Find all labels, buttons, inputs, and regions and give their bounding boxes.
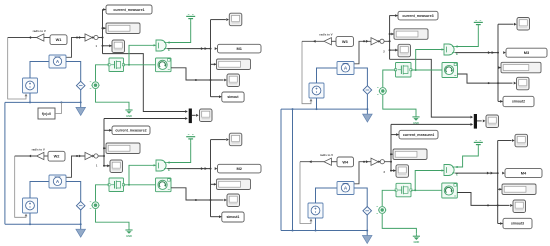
diode DG2 xyxy=(92,202,99,209)
wire to scope 1a xyxy=(102,45,104,47)
svg-text:M4: M4 xyxy=(521,171,527,176)
scope 2a xyxy=(110,160,123,173)
wire to display 3a xyxy=(389,33,391,35)
mosfet T3 xyxy=(396,63,412,78)
wire current sensor signal 1 xyxy=(66,38,103,58)
block W2 xyxy=(48,151,65,161)
wire green mosfet-motor 4 xyxy=(411,189,442,191)
wire solver stub xyxy=(55,102,61,113)
solver f(x)=0 xyxy=(38,108,55,119)
wire green left branch 3 xyxy=(383,70,396,87)
wire current sensor signal 3 xyxy=(354,41,390,64)
wire junction column 3 xyxy=(389,15,391,59)
wire current sensor signal 2 xyxy=(66,156,104,177)
wire green mosfet-motor 3 xyxy=(411,69,442,71)
scope 1b xyxy=(227,74,240,87)
block converter 1 xyxy=(94,35,98,39)
block M3 goto xyxy=(506,48,547,57)
scope 1t xyxy=(229,13,242,26)
ground green 4 xyxy=(415,234,417,236)
scope 3b xyxy=(517,77,530,90)
block M2 goto xyxy=(218,164,262,173)
display 4a xyxy=(393,149,427,160)
dc source E1 xyxy=(186,15,195,17)
block converter 3 xyxy=(380,39,384,43)
wire junction column 2 xyxy=(103,119,105,166)
scope 3a xyxy=(398,44,411,57)
block simout xyxy=(222,92,244,102)
display 2a xyxy=(106,143,140,154)
wire emitter-M1 row xyxy=(167,48,210,50)
wire speed reference row 4 xyxy=(300,161,324,163)
block simout2 xyxy=(503,96,534,106)
wire motor measurement row 3 xyxy=(458,74,513,83)
gain K3b xyxy=(371,38,378,45)
svg-text:simout1: simout1 xyxy=(226,215,239,219)
motor M3 xyxy=(442,63,458,78)
gain K3a xyxy=(324,38,331,45)
svg-text:GND: GND xyxy=(126,114,132,118)
wire to current_measure3 xyxy=(390,15,398,17)
scope 4t xyxy=(515,134,528,147)
diode D2 xyxy=(76,201,85,210)
svg-text:M2: M2 xyxy=(237,166,243,171)
block current_measure1 xyxy=(106,5,152,14)
svg-text:simout: simout xyxy=(227,95,239,99)
wire motor measurement row 4 xyxy=(457,193,509,206)
wire green gate 2 xyxy=(129,165,156,185)
wire to current_measure2 xyxy=(104,129,112,131)
display 3b xyxy=(501,62,541,73)
wire green left branch 1 xyxy=(96,65,110,81)
motor M4 xyxy=(442,183,458,198)
svg-text:current_measure3: current_measure3 xyxy=(402,14,433,18)
current sensor I4 xyxy=(337,182,354,195)
wire to scope 2a xyxy=(103,165,105,167)
wire blue return rail 2 xyxy=(5,223,81,225)
wire blue diode-rail 2 xyxy=(80,210,82,224)
wire blue V1-top xyxy=(30,62,49,79)
wire junction column 4 xyxy=(390,124,392,170)
controlled voltage source V2 xyxy=(23,198,38,213)
wire speed reference row 1 xyxy=(8,37,37,39)
svg-text:M1: M1 xyxy=(237,46,243,51)
wire green left branch 2 xyxy=(96,185,110,201)
diode DG3 xyxy=(379,88,386,95)
wire blue return rail 3 xyxy=(281,108,367,110)
wire to display 4a xyxy=(390,153,392,155)
block current_measure4 xyxy=(399,130,438,139)
svg-text:current_measure4: current_measure4 xyxy=(403,133,434,137)
gain K4b xyxy=(371,158,378,165)
scope mux1 xyxy=(200,109,213,122)
wire sink column 2 xyxy=(210,140,212,217)
scope 1a xyxy=(112,40,125,53)
wire blue diode-rail 3 xyxy=(366,94,368,109)
wire blue return rail 4 xyxy=(281,230,367,232)
block converter 2 xyxy=(94,154,98,158)
mosfet T4 xyxy=(396,183,411,197)
current sensor I1 xyxy=(49,55,66,68)
wire gain-W3 xyxy=(331,40,336,42)
dc source E3 xyxy=(474,21,483,23)
ground blue 2 xyxy=(80,224,82,229)
wire sink column 4 xyxy=(497,141,499,224)
wire emitter-M4 row xyxy=(455,172,498,174)
wire mux1 output xyxy=(192,114,196,116)
wire to mux 2 xyxy=(104,118,186,120)
current sensor I2 xyxy=(49,175,66,188)
svg-text:GND: GND xyxy=(414,240,420,244)
wire current sensor signal 4 xyxy=(354,162,391,184)
wire grey control rail 1 xyxy=(8,38,26,100)
wire to display 1b xyxy=(211,63,217,65)
display 4b xyxy=(502,184,536,195)
wire emitter-M2 row xyxy=(167,168,210,170)
diode D1 xyxy=(76,81,85,90)
wire green mosfet-motor 1 xyxy=(124,64,156,66)
ground blue 1 xyxy=(80,102,82,107)
wire gain-W2 xyxy=(44,155,48,157)
controlled voltage source V4 xyxy=(308,203,323,218)
svg-text:GND: GND xyxy=(126,234,132,238)
motor M2 xyxy=(156,178,172,192)
display 3a xyxy=(394,29,428,40)
wire blue link right pair second xyxy=(292,109,294,230)
wire gain-W1 xyxy=(44,37,50,39)
controlled voltage source V1 xyxy=(23,78,38,93)
diode DG1 xyxy=(92,82,99,89)
ground green 3 xyxy=(415,115,417,117)
mux 2 xyxy=(474,114,477,129)
wire speed reference row 2 xyxy=(15,155,37,157)
wire blue V2-bottom xyxy=(29,213,31,224)
wire to mux 1 xyxy=(103,54,186,112)
wire blue link left pair xyxy=(4,102,6,224)
transistor Q2 xyxy=(156,160,166,171)
wire sink column 3 xyxy=(497,24,499,101)
display 1b xyxy=(217,59,251,70)
wire blue diode-rail 1 xyxy=(80,90,82,103)
diode D4 xyxy=(363,207,372,216)
block M1 goto xyxy=(218,44,262,53)
svg-text:rad/s to V: rad/s to V xyxy=(320,153,333,157)
scope 2b xyxy=(227,194,240,207)
diode D3 xyxy=(363,86,372,95)
transistor Q3 xyxy=(444,44,454,55)
wire grey control rail 2 xyxy=(15,156,26,217)
diode DG4 xyxy=(379,207,386,214)
wire grey control rail 3 xyxy=(302,41,311,103)
wire to display 2a xyxy=(103,147,105,149)
current sensor I3 xyxy=(337,62,354,75)
svg-text:rad/s to V: rad/s to V xyxy=(32,147,45,151)
wire junction column 1 xyxy=(102,10,104,54)
gain K1a xyxy=(37,34,44,41)
wire emitter-M3 row xyxy=(455,52,498,54)
wire blue I2-diode xyxy=(66,182,81,202)
wire green left branch 4 xyxy=(382,190,396,206)
gain K4a xyxy=(324,158,331,165)
wire to mux 4 xyxy=(391,123,471,125)
wire speed reference row 3 xyxy=(302,40,324,42)
svg-text:W1: W1 xyxy=(56,37,63,42)
wire blue V2-top xyxy=(30,182,49,199)
wire blue I1-diode xyxy=(66,62,81,82)
wire to simout3 xyxy=(498,223,503,225)
wire green dc-collector 1 xyxy=(167,22,191,43)
display 2b xyxy=(217,179,251,190)
wire to display 1a xyxy=(102,27,104,29)
mosfet T2 xyxy=(109,178,124,192)
wire blue V1-bottom xyxy=(29,93,31,102)
wire to scope-top 4 xyxy=(498,140,512,142)
wire green gate 1 xyxy=(129,45,156,65)
wire blue I4-diode xyxy=(354,188,367,207)
wire to current_measure1 xyxy=(103,9,106,11)
wire blue return rail 1 xyxy=(5,101,81,103)
wire green dc-collector 2 xyxy=(167,142,191,162)
wire green dc-collector 4 xyxy=(455,148,478,167)
gain K1b xyxy=(85,34,92,41)
block W1 xyxy=(50,35,67,45)
wire to scope 4a xyxy=(390,170,392,172)
wire blue V4-top xyxy=(316,188,338,203)
scope mux2 xyxy=(486,115,499,128)
svg-text:M3: M3 xyxy=(524,50,530,55)
wire green branch-rail 3 xyxy=(383,95,416,115)
svg-text:f(x)=0: f(x)=0 xyxy=(42,112,51,116)
wire to simout xyxy=(211,96,222,98)
svg-text:W2: W2 xyxy=(54,154,61,159)
svg-text:rad/s to V: rad/s to V xyxy=(319,33,332,37)
svg-text:simout3: simout3 xyxy=(511,222,524,226)
wire blue diode-rail 4 xyxy=(366,215,368,230)
svg-text:current_measure2: current_measure2 xyxy=(115,129,146,133)
wire to display 3b xyxy=(498,67,501,69)
wire to mux 3 xyxy=(390,59,471,117)
block simout1 xyxy=(222,212,244,222)
block M4 goto xyxy=(505,169,542,178)
wire motor measurement row 1 xyxy=(171,68,224,80)
svg-text:simout2: simout2 xyxy=(512,100,525,104)
wire green branch-rail 1 xyxy=(96,89,130,107)
wire to display 2b xyxy=(211,183,217,185)
wire to scope-top 2 xyxy=(211,139,226,141)
wire to scope 3a xyxy=(389,49,391,51)
wire blue link right pair xyxy=(280,109,282,230)
ground green 1 xyxy=(128,108,130,110)
block W3 xyxy=(336,37,354,47)
wire to current_measure4 xyxy=(391,134,399,136)
wire green branch-rail 4 xyxy=(382,214,416,234)
transistor Q4 xyxy=(444,165,454,176)
wire blue V3-bottom xyxy=(316,98,318,109)
wire sink column 1 xyxy=(210,20,212,97)
svg-text:current_measure1: current_measure1 xyxy=(113,8,144,12)
wire blue I3-diode xyxy=(354,68,367,86)
display 1a xyxy=(106,23,140,34)
scope 4b xyxy=(513,200,526,213)
wire green gate 3 xyxy=(416,50,444,71)
block current_measure3 xyxy=(398,11,438,20)
wire to simout2 xyxy=(498,100,503,102)
svg-text:rad/s to V: rad/s to V xyxy=(33,29,46,33)
gain K2a xyxy=(37,152,44,159)
wire to scope-top 3 xyxy=(498,23,514,25)
scope 3t xyxy=(517,18,530,31)
svg-text:W4: W4 xyxy=(342,159,349,164)
ground blue 3 xyxy=(366,109,368,114)
wire blue V3-top xyxy=(317,68,338,83)
svg-text:W3: W3 xyxy=(342,39,349,44)
wire grey control rail 4 xyxy=(300,162,311,224)
gain K2b xyxy=(85,152,92,159)
mosfet T1 xyxy=(109,58,124,72)
ground blue 4 xyxy=(366,231,368,236)
block converter 4 xyxy=(380,160,384,164)
node blue rail junctions left xyxy=(60,101,62,103)
wire green mosfet-motor 2 xyxy=(124,184,156,186)
dc source E4 xyxy=(474,141,483,143)
mux 1 xyxy=(189,109,192,124)
wire mux2 output xyxy=(477,120,482,122)
wire to display 4b xyxy=(498,188,502,190)
wire gain-W4 xyxy=(331,161,337,163)
scope 4a xyxy=(396,165,409,178)
controlled voltage source V3 xyxy=(309,83,324,98)
block current_measure2 xyxy=(112,126,150,135)
wire green branch-rail 2 xyxy=(96,209,130,227)
wire motor measurement row 2 xyxy=(171,188,224,200)
wire green gate 4 xyxy=(415,171,443,191)
dc source E2 xyxy=(186,136,195,138)
ground green 2 xyxy=(128,228,130,230)
block W4 xyxy=(337,157,354,167)
transistor Q1 xyxy=(156,40,166,51)
block simout3 xyxy=(503,218,532,228)
wire to scope-top 1 xyxy=(211,19,226,21)
wire blue V4-bottom xyxy=(315,218,317,231)
motor M1 xyxy=(156,58,172,72)
wire to simout1 xyxy=(211,216,222,218)
wire green dc-collector 3 xyxy=(455,28,478,47)
scope 2t xyxy=(229,133,242,146)
